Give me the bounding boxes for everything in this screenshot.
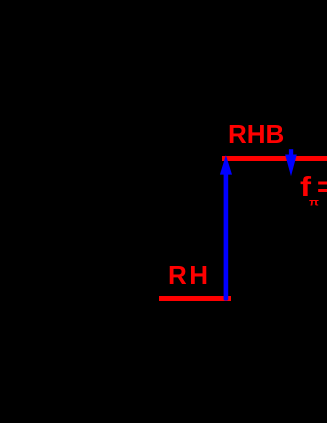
label f pi = [300,173,327,208]
label RHB [228,121,284,147]
RHB energy level line [222,156,327,161]
label RH [168,262,211,288]
emission arrow (down, blue) [285,149,297,176]
RH energy level line [159,296,231,301]
